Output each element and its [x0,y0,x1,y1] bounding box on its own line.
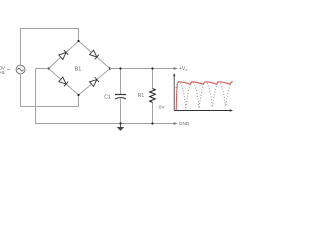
node: bridge top corner [77,40,79,42]
label V1 source value (clipped at left edge) [0,65,10,75]
capacitor C1 leads [120,69,122,95]
svg-text:GND: GND [179,121,190,127]
svg-text:~: ~ [7,68,10,74]
wire: negative drop to ground rail [35,69,37,125]
diode D3 (left corner to bottom corner) [59,77,68,86]
axis: horizontal time axis with right arrow [174,109,233,112]
wire: left corner stub to negative drop [36,68,49,70]
wire: +V output rail [110,68,177,70]
svg-text:B1: B1 [75,66,82,72]
AC source V1 [16,65,25,74]
node: ground rail / R1 junction [151,122,153,124]
wire: source bottom lead down [20,74,22,107]
diode D2 (top corner to right corner) [89,50,98,59]
wire: ground rail [35,123,177,125]
resistor R1 [150,89,156,103]
svg-text:0V: 0V [159,105,166,111]
svg-text:0Hz: 0Hz [0,70,6,75]
wire: top horizontal run to bridge [20,28,79,30]
node: +V rail / R1 junction [151,67,153,69]
diode D4 (bottom corner to right corner) [89,77,98,86]
resistor R1 leads [152,69,154,89]
ground [117,124,124,131]
arrow to GND [174,122,178,125]
svg-text:C1: C1 [104,95,111,101]
waveform: smoothed output ripple (red) [176,82,233,111]
bridge rectifier B1 diamond wires [49,41,111,95]
arrow to +Vo [174,67,178,70]
diode D1 (left corner to top corner) [59,50,68,59]
svg-text:R1: R1 [138,93,145,99]
wire: source top lead up [20,28,22,65]
capacitor C1 [115,95,126,100]
waveform: full-wave rectified sine (dotted grey) [176,82,233,110]
node: ground rail / C1 junction [119,122,121,124]
axis: vertical voltage axis with up arrow [173,73,176,111]
wire: bottom horizontal run to bridge bottom [20,106,79,108]
node: bridge bottom corner [77,94,79,96]
node: +V rail / C1 junction [119,67,121,69]
node: bridge right corner [109,67,111,69]
wire: drop into bridge top corner [78,29,80,42]
node: bridge left corner [47,67,49,69]
wire: riser to bridge bottom corner [78,95,80,107]
